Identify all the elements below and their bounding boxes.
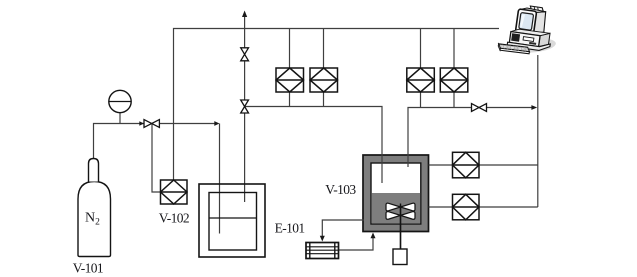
svg-text:V-102: V-102 bbox=[159, 210, 189, 225]
svg-text:E-101: E-101 bbox=[275, 221, 305, 236]
svg-text:V-103: V-103 bbox=[325, 182, 356, 197]
svg-text:V-101: V-101 bbox=[73, 261, 103, 276]
